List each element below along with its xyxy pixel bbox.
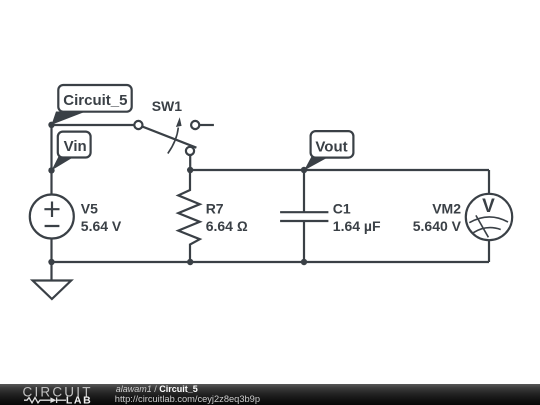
wire: top rail to voltmeter top — [488, 170, 490, 194]
wire: left vertical from node A down to Vin node — [50, 125, 52, 170]
wire: node A to switch left terminal — [52, 124, 136, 126]
wire: ground node to ground symbol — [50, 262, 52, 281]
svg-text:alawam1 / Circuit_5: alawam1 / Circuit_5 — [116, 384, 198, 394]
wire: voltmeter bottom to bottom rail — [488, 240, 490, 262]
label flag Vout — [304, 131, 353, 170]
wire: bottom rail — [52, 261, 490, 263]
svg-text:LAB: LAB — [66, 395, 92, 405]
node: junction A (Circuit_5 / switch) — [48, 122, 54, 128]
wire: switch bottom terminal down to top rail — [189, 155, 191, 170]
resistor R7 — [178, 170, 248, 262]
node: Vin junction — [48, 167, 54, 173]
node: R7 top junction — [187, 167, 193, 173]
wire: Vin node down to V5 top — [50, 170, 52, 194]
wire: V5 bottom to ground node — [50, 239, 52, 262]
node: C1 bottom junction — [301, 259, 307, 265]
node: Vout junction — [301, 167, 307, 173]
wire: top rail (Vout net) — [190, 169, 489, 171]
label flag Circuit_5 — [52, 85, 132, 125]
node: R7 bottom junction — [187, 259, 193, 265]
label flag Vin — [52, 132, 91, 171]
switch SW1 — [134, 98, 214, 155]
capacitor C1 — [280, 170, 381, 262]
voltage source V5 — [30, 195, 122, 239]
CircuitLab logo — [23, 384, 93, 405]
voltmeter VM2 — [413, 194, 512, 240]
node: ground junction — [48, 259, 54, 265]
svg-text:http://circuitlab.com/ceyj2z8e: http://circuitlab.com/ceyj2z8eq3b9p — [115, 394, 260, 404]
footer bar — [0, 384, 540, 405]
ground — [33, 281, 72, 300]
